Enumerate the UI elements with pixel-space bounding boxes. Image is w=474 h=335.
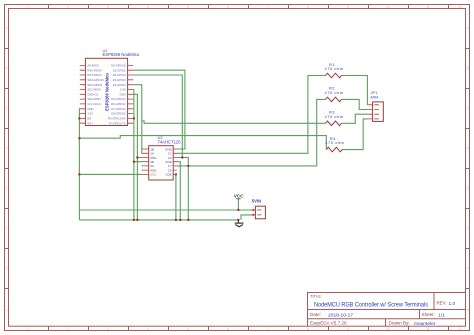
svg-text:11: 11 <box>426 327 430 331</box>
svg-text:74AHCT125: 74AHCT125 <box>158 140 182 145</box>
svg-text:Sheet:: Sheet: <box>422 312 435 317</box>
wire R2 output to JP1 pin2 <box>342 99 368 109</box>
wire VCC rail <box>79 209 252 211</box>
svg-text:A0-ADC0: A0-ADC0 <box>87 64 99 68</box>
svg-text:CMD-CS: CMD-CS <box>87 92 98 96</box>
svg-text:5: 5 <box>187 5 189 9</box>
svg-text:2018-10-17: 2018-10-17 <box>328 312 353 318</box>
svg-text:ESP8266 NodeMcu: ESP8266 NodeMcu <box>104 73 109 111</box>
junction at (137.4,219.9) <box>136 219 138 221</box>
svg-text:5VIN: 5VIN <box>252 198 261 203</box>
svg-text:9: 9 <box>347 5 349 9</box>
power flag VCC <box>234 193 244 198</box>
svg-text:D0-GPIO16: D0-GPIO16 <box>111 64 126 68</box>
ground <box>235 220 244 227</box>
svg-text:SD2-GPIO9: SD2-GPIO9 <box>87 83 102 87</box>
IC U1 ESP8266 NodeMcu <box>80 48 140 126</box>
svg-text:RST: RST <box>87 121 93 125</box>
junction at (180.3,219.9) <box>179 219 181 221</box>
wire U1 pin r12 stub join <box>132 117 135 119</box>
wire R1 output to JP1 pin1 <box>342 76 368 105</box>
svg-text:GND: GND <box>87 107 93 111</box>
svg-text:1: 1 <box>27 327 29 331</box>
svg-text:6: 6 <box>227 327 229 331</box>
wire U1 right r6 vertical bus to GND rail <box>133 90 141 220</box>
svg-text:6: 6 <box>227 5 229 9</box>
connector P1 5VIN <box>251 198 265 218</box>
svg-text:10: 10 <box>386 5 390 9</box>
wire to U2 VCC pin <box>79 173 141 175</box>
svg-text:4: 4 <box>147 327 149 331</box>
wire R3 input long with jog from bus <box>142 121 326 123</box>
junction at (137.4,157.5) <box>136 156 138 158</box>
junction at (175.9,219.9) <box>175 219 177 221</box>
svg-text:470 ohm: 470 ohm <box>325 140 344 145</box>
wire VCC flag stub <box>237 199 239 210</box>
svg-text:2: 2 <box>67 5 69 9</box>
junction at (133.9,219.9) <box>133 219 135 221</box>
svg-text:1.0: 1.0 <box>449 301 456 307</box>
svg-text:8: 8 <box>307 327 309 331</box>
svg-text:EasyEDA V5.7.26: EasyEDA V5.7.26 <box>310 321 347 326</box>
svg-text:F: F <box>467 227 469 231</box>
junction at (175.9,174.4) <box>175 173 177 175</box>
svg-text:SD1-MOSI: SD1-MOSI <box>87 88 101 92</box>
IC U2 74AHCT125 <box>142 135 182 180</box>
junction at (188.3,219.9) <box>187 219 189 221</box>
svg-text:7: 7 <box>267 5 269 9</box>
svg-text:9: 9 <box>347 327 349 331</box>
svg-text:5: 5 <box>187 327 189 331</box>
svg-text:8: 8 <box>307 5 309 9</box>
junction at (79.4,118.4) <box>78 117 80 119</box>
svg-text:1: 1 <box>27 5 29 9</box>
svg-text:12: 12 <box>458 5 462 9</box>
wire U2 r6 down to GND rail <box>177 162 180 220</box>
wire 5VIN pin2 <box>241 215 252 220</box>
svg-text:11: 11 <box>426 5 430 9</box>
svg-text:1/1: 1/1 <box>438 312 445 318</box>
svg-text:RX-GPIO3-RX: RX-GPIO3-RX <box>108 117 126 121</box>
svg-text:7: 7 <box>267 327 269 331</box>
svg-text:D3-GPIO0: D3-GPIO0 <box>113 78 126 82</box>
svg-text:3.3V: 3.3V <box>120 88 126 92</box>
svg-text:1OE: 1OE <box>165 173 171 177</box>
svg-text:EN: EN <box>87 117 91 121</box>
svg-text:TX-GPIO1-TX: TX-GPIO1-TX <box>108 121 125 125</box>
wire GND rail <box>79 219 238 221</box>
svg-text:D2-GPIO4: D2-GPIO4 <box>113 73 126 77</box>
junction at (188.3,165.9) <box>187 165 189 167</box>
svg-text:VCC: VCC <box>150 173 157 177</box>
wire U2 r5 to R2 <box>177 99 326 165</box>
svg-text:D8-GPIO15: D8-GPIO15 <box>111 112 126 116</box>
svg-text:10: 10 <box>386 327 390 331</box>
title block <box>308 293 466 327</box>
svg-text:4: 4 <box>147 5 149 9</box>
svg-text:GND: GND <box>119 92 125 96</box>
svg-text:G: G <box>5 267 8 271</box>
junction at (133.9,161.7) <box>133 161 135 163</box>
wire U1 right r7 vertical to GND rail <box>133 94 141 220</box>
svg-text:D1-GPIO5: D1-GPIO5 <box>113 68 126 72</box>
svg-text:D4-GPIO2: D4-GPIO2 <box>113 83 126 87</box>
svg-text:Date:: Date: <box>310 312 321 317</box>
svg-text:SD3-GPIO10: SD3-GPIO10 <box>87 78 104 82</box>
resistor R1 470 ohm <box>325 62 344 78</box>
svg-text:F: F <box>5 227 7 231</box>
svg-text:msanteler: msanteler <box>414 321 436 327</box>
junction at (238.4,210) <box>237 209 239 211</box>
svg-text:REV:: REV: <box>437 301 447 306</box>
svg-text:Drawn By:: Drawn By: <box>389 321 410 326</box>
resistor R4 470 ohm <box>325 136 344 152</box>
svg-text:2: 2 <box>67 327 69 331</box>
svg-text:NodeMCU RGB Controller w/ Scre: NodeMCU RGB Controller w/ Screw Terminal… <box>314 302 428 309</box>
junction at (182.3,157.5) <box>181 156 183 158</box>
wire R3 output to JP1 pin3 <box>342 114 368 123</box>
junction at (79.4,138.2) <box>78 137 80 139</box>
svg-text:D5-GPIO14: D5-GPIO14 <box>111 97 126 101</box>
wire U2 r7 down to GND rail <box>176 174 177 220</box>
wire step to R4 input <box>79 136 326 150</box>
svg-text:VCC: VCC <box>234 193 244 198</box>
resistor R3 470 ohm <box>325 110 344 126</box>
svg-text:470 ohm: 470 ohm <box>325 90 344 95</box>
svg-text:D7-GPIO13: D7-GPIO13 <box>111 107 126 111</box>
svg-text:RSV-RSVD: RSV-RSVD <box>87 68 101 72</box>
wire left vertical bus <box>78 109 80 220</box>
svg-text:G: G <box>467 267 470 271</box>
svg-text:CLK-SCLK: CLK-SCLK <box>87 102 101 106</box>
wire U1.D2 to U2 pin4 <box>133 75 182 158</box>
wire U1 right r5 down to U2 left pin2 <box>133 85 142 154</box>
svg-text:D6-GPIO12: D6-GPIO12 <box>111 102 126 106</box>
svg-text:470 ohm: 470 ohm <box>325 66 344 71</box>
svg-text:TITLE:: TITLE: <box>310 294 322 299</box>
connector JP1 M04 <box>368 90 384 121</box>
resistor R2 470 ohm <box>325 86 344 102</box>
svg-text:M04: M04 <box>371 94 380 99</box>
svg-text:3: 3 <box>107 5 109 9</box>
wire U1.D1 to U2 pin1 <box>133 70 185 149</box>
svg-text:12: 12 <box>458 327 462 331</box>
svg-text:SD0-MISO: SD0-MISO <box>87 97 100 101</box>
wire R4 output to JP1 pin4 <box>342 119 368 150</box>
svg-text:3: 3 <box>107 327 109 331</box>
junction at (79.4,174.4) <box>78 173 80 175</box>
junction at (133.9,118.4) <box>133 117 135 119</box>
svg-text:3.3V: 3.3V <box>87 112 93 116</box>
junction at (238.4,219.9) <box>237 219 239 221</box>
svg-text:ESP8266 NodeMcu: ESP8266 NodeMcu <box>103 52 140 57</box>
wire U2 r3 down to GND rail <box>177 158 188 220</box>
svg-text:RSV-RSVD: RSV-RSVD <box>87 73 101 77</box>
svg-text:470 ohm: 470 ohm <box>325 114 344 119</box>
wire U2.2Y to R1 <box>177 76 326 154</box>
